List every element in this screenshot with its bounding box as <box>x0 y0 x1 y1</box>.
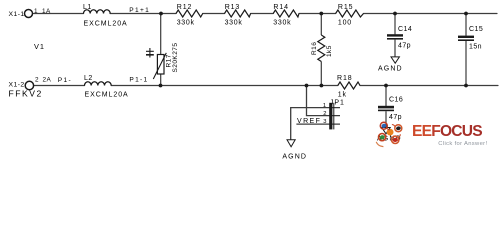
ground AGND (under JP1) <box>282 140 307 161</box>
svg-text:1: 1 <box>323 103 327 109</box>
node top/varistor <box>159 12 163 16</box>
wire top rail: connector to L1 <box>33 13 84 15</box>
center orange dot <box>387 129 394 136</box>
svg-text:330k: 330k <box>225 20 243 27</box>
ground AGND (under C16, behind logo) <box>377 128 402 143</box>
svg-text:330k: 330k <box>273 20 291 27</box>
svg-text:P1-: P1- <box>58 77 72 84</box>
wire top rail: L1 to R12 <box>110 13 176 15</box>
svg-text:C16: C16 <box>389 96 403 103</box>
svg-text:R14: R14 <box>273 4 289 11</box>
connector X1-1 <box>9 8 52 18</box>
resistor R12 <box>176 4 203 26</box>
connector X1-2 <box>9 76 52 89</box>
svg-text:3: 3 <box>323 119 327 125</box>
wire bottom rail: connector to L2 <box>34 85 85 87</box>
svg-text:1A: 1A <box>42 8 51 15</box>
wire top rail: R12 to R13 <box>203 13 225 15</box>
ring black (top-right) <box>395 125 402 132</box>
svg-text:1: 1 <box>34 8 38 15</box>
svg-text:L1: L1 <box>83 4 92 11</box>
wire: drop from bottom rail to pin 2 <box>307 86 341 116</box>
junction node dots <box>159 12 468 88</box>
svg-text:S20K275: S20K275 <box>172 43 179 73</box>
svg-text:15n: 15n <box>469 44 482 51</box>
svg-text:JP1: JP1 <box>330 100 345 107</box>
svg-text:C14: C14 <box>398 26 412 33</box>
capacitor C15 <box>458 14 483 86</box>
varistor R17 S20K275 <box>146 14 179 86</box>
EEFOCUS watermark logo <box>376 122 487 147</box>
svg-text:1k: 1k <box>338 92 347 99</box>
node bottom/C15 <box>464 84 468 88</box>
svg-text:R12: R12 <box>177 4 193 11</box>
resistor R18 <box>337 75 360 99</box>
wire bottom rail: L2 to R18 <box>111 85 338 87</box>
net label VREF (pin 3) <box>296 123 340 125</box>
svg-text:L2: L2 <box>84 75 93 82</box>
svg-text:R15: R15 <box>338 4 354 11</box>
ring blue (top-left) <box>380 122 387 129</box>
svg-text:R13: R13 <box>225 4 241 11</box>
svg-text:V1: V1 <box>34 42 45 51</box>
logo swoosh tail <box>376 142 383 147</box>
svg-text:FFKV2: FFKV2 <box>9 89 43 99</box>
svg-text:2: 2 <box>35 76 39 83</box>
svg-text:2A: 2A <box>43 76 52 83</box>
svg-text:47p: 47p <box>398 43 411 50</box>
node bottom/R16 <box>320 84 324 88</box>
svg-text:R18: R18 <box>337 75 353 82</box>
inductor L2 <box>84 75 129 99</box>
node top/R16 <box>319 12 323 16</box>
node bottom/JP1 <box>305 84 309 88</box>
svg-text:EXCML20A: EXCML20A <box>85 92 129 99</box>
svg-text:EEFOCUS: EEFOCUS <box>412 123 482 140</box>
svg-text:R16: R16 <box>311 42 318 55</box>
resistor R14 <box>273 4 299 26</box>
wire bottom rail: R18 to right edge <box>360 85 498 87</box>
node top/C14 <box>393 12 397 16</box>
wire top rail: R13 to R14 <box>251 13 274 15</box>
jumper JP1 <box>291 86 345 140</box>
svg-text:330k: 330k <box>177 20 195 27</box>
resistor R16 (vertical) <box>311 14 333 86</box>
ring green (bottom-left) <box>379 134 386 141</box>
svg-text:1k5: 1k5 <box>326 45 333 57</box>
svg-text:AGND: AGND <box>378 66 403 73</box>
resistor R15 <box>336 4 364 27</box>
svg-text:P1-1: P1-1 <box>129 76 148 83</box>
svg-text:Click for Answer!: Click for Answer! <box>438 141 487 147</box>
inductor L1 <box>83 4 128 28</box>
wire top rail: R14 to R15 <box>299 13 336 15</box>
svg-text:X1-1: X1-1 <box>9 11 25 18</box>
svg-text:C15: C15 <box>469 26 483 33</box>
capacitor C14 <box>387 14 412 57</box>
node bottom/C16 <box>384 84 388 88</box>
ground AGND (under C14) <box>378 57 403 73</box>
resistor R13 <box>225 4 251 26</box>
svg-text:AGND: AGND <box>282 153 307 160</box>
wire top rail: R15 to right edge <box>364 13 498 15</box>
svg-text:47p: 47p <box>389 114 402 121</box>
header body <box>329 103 332 130</box>
svg-text:P1+1: P1+1 <box>129 7 150 14</box>
capacitor C16 <box>378 86 403 128</box>
svg-text:EXCML20A: EXCML20A <box>84 21 128 28</box>
node bottom/varistor <box>159 84 163 88</box>
ring red (bottom-right) <box>392 136 399 143</box>
svg-text:VREF: VREF <box>297 118 321 125</box>
svg-text:2: 2 <box>323 111 327 117</box>
node top/C15 <box>464 12 468 16</box>
wire: pin 1 to AGND branch <box>291 108 340 140</box>
svg-text:100: 100 <box>338 20 352 27</box>
